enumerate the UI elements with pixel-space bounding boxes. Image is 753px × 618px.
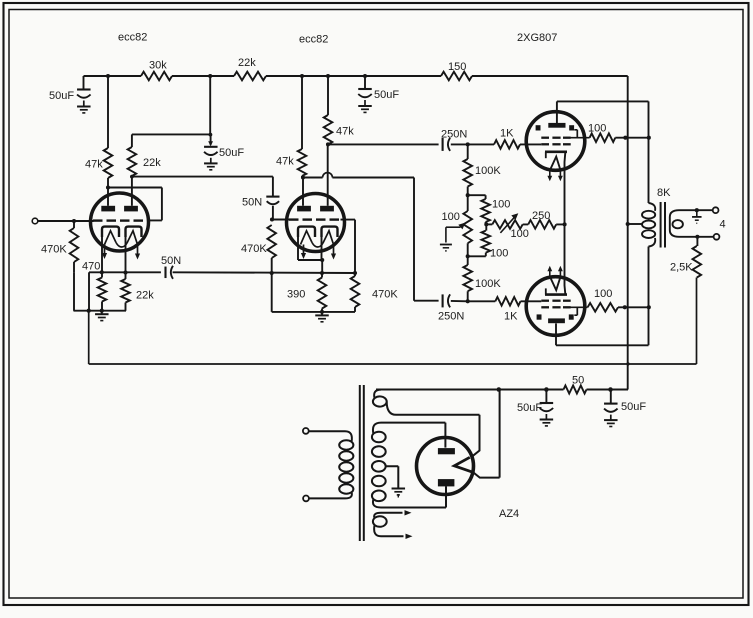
output terminal top	[713, 207, 719, 213]
wire grid V2 left	[272, 219, 291, 221]
label 4 ohm	[720, 219, 726, 231]
G807u plate	[548, 123, 565, 128]
node decoupler junction	[209, 133, 213, 137]
svg-text:100: 100	[490, 248, 508, 260]
resistor 50	[564, 386, 587, 394]
label 250N C7	[438, 311, 464, 323]
wire AZ4 plate bottom lead	[445, 486, 447, 507]
G807l control dashes	[541, 300, 570, 302]
wire B+ vertical	[627, 76, 629, 390]
label 2XG807	[517, 32, 557, 44]
node sec ground	[695, 208, 699, 212]
wire AZ4 plate top lead	[444, 423, 446, 448]
wire V2 bottom box	[272, 273, 355, 312]
ground V1 cathode	[95, 311, 109, 321]
tetrode G807 lower envelope	[526, 277, 585, 336]
svg-text:100: 100	[588, 123, 606, 135]
node rail-47k V2a	[300, 74, 304, 78]
node y273-470K2	[353, 271, 357, 275]
wire G807u plate line	[557, 101, 649, 203]
wire R47k to plate V1	[107, 178, 109, 206]
G807l beam plate right	[569, 314, 574, 319]
label AZ4	[499, 508, 519, 520]
wire AZ4 filament top lead	[471, 415, 479, 457]
label 470K V1	[41, 244, 67, 256]
ground secondary	[692, 210, 702, 223]
wire G807l plate line	[556, 247, 649, 346]
ground C2	[358, 106, 372, 112]
svg-text:150: 150	[448, 61, 466, 73]
node mid-lower	[466, 254, 470, 258]
capacitor 50uF C8	[540, 390, 554, 420]
label 8K	[657, 187, 671, 199]
ground C9	[604, 420, 618, 426]
capacitor 250N C7	[443, 294, 451, 307]
resistor 100 upper-cath	[481, 199, 490, 224]
label 2.5K	[670, 262, 693, 274]
label 50uF C1	[49, 90, 74, 102]
T2 secondary	[670, 210, 683, 237]
resistor 100K lower	[463, 256, 472, 301]
G807u screen tap	[566, 130, 590, 138]
wire HV center tap	[386, 466, 399, 488]
svg-text:ecc82: ecc82	[118, 32, 147, 44]
wire C4 to grid node	[272, 206, 274, 220]
V1 plate 1	[101, 206, 115, 212]
T1 primary	[309, 431, 354, 498]
label 470K V2-cath	[372, 289, 398, 301]
tetrode G807 upper envelope	[526, 112, 585, 171]
G807l cathode bar	[545, 288, 567, 294]
resistor 470K V1	[70, 228, 79, 262]
label 22k cathode	[136, 290, 154, 302]
G807l beam plate left	[537, 314, 542, 319]
label 100 balance	[511, 228, 529, 240]
wire grid V2 right	[341, 220, 356, 273]
label 50	[572, 375, 584, 387]
resistor 250	[523, 220, 565, 229]
svg-text:50uF: 50uF	[49, 90, 74, 102]
G807u screen dashes	[541, 137, 570, 139]
svg-text:470: 470	[82, 261, 100, 273]
wire 47kb to plate	[327, 144, 329, 205]
svg-text:50uF: 50uF	[517, 402, 542, 414]
T2 primary 8K	[642, 203, 655, 247]
svg-text:50N: 50N	[242, 197, 262, 209]
transformer T2 core	[661, 202, 665, 248]
node grid node lower	[466, 299, 470, 303]
wire rail to C2	[364, 76, 366, 89]
V2 grid dashes	[289, 218, 339, 220]
wire B+ raw line	[376, 389, 628, 391]
wire T2 center tap	[628, 223, 643, 225]
label 100K lower	[475, 278, 501, 290]
svg-text:4: 4	[720, 219, 726, 231]
capacitor 50uF C2	[358, 89, 372, 106]
arrow into C3	[208, 141, 213, 146]
wire decoupler arrow stem	[210, 134, 212, 144]
node rail-47k V1	[106, 74, 110, 78]
label 47k V2b	[336, 126, 354, 138]
node Braw-C8	[544, 387, 549, 392]
label 250N C6	[441, 129, 467, 141]
resistor 22k anode V1	[128, 147, 137, 176]
G807u beam plate left	[536, 125, 541, 130]
svg-text:50uF: 50uF	[219, 147, 244, 159]
resistor 47k V1	[104, 148, 113, 178]
G807u beam plate right	[569, 125, 574, 130]
label 30k	[149, 60, 167, 72]
resistor 470 V1	[98, 272, 107, 310]
G807l screen tap	[566, 307, 588, 315]
capacitor 250N C6	[443, 138, 451, 151]
V2 plate 1	[297, 206, 311, 212]
resistor 390	[318, 273, 327, 312]
output terminal bottom	[714, 234, 720, 240]
resistor 470K V2-grid	[267, 225, 276, 273]
svg-text:2XG807: 2XG807	[517, 32, 557, 44]
svg-text:100: 100	[492, 199, 510, 211]
svg-text:50uF: 50uF	[374, 89, 399, 101]
resistor 100K upper	[463, 144, 472, 195]
wire anode2 to C4	[132, 177, 273, 196]
label 50N C5	[161, 255, 181, 267]
G807l plate	[548, 318, 565, 323]
svg-text:50uF: 50uF	[621, 401, 646, 413]
label 50uF C8	[517, 402, 542, 414]
resistor 150	[441, 72, 472, 81]
svg-text:100K: 100K	[475, 278, 501, 290]
wire cathode line y272	[89, 272, 355, 310]
node cath-left	[100, 270, 104, 274]
label 50uF C2	[374, 89, 399, 101]
svg-text:2,5K: 2,5K	[670, 262, 693, 274]
svg-text:47k: 47k	[276, 156, 294, 168]
svg-text:50N: 50N	[161, 255, 181, 267]
node y273-390	[320, 271, 324, 275]
resistor 22k cathode V1	[121, 273, 130, 311]
input terminal	[32, 218, 38, 224]
ground C8	[540, 420, 554, 426]
triode V1 envelope	[91, 193, 149, 251]
node grid node upper	[466, 142, 470, 146]
V1 cathode structures	[102, 227, 142, 247]
potentiometer 100 hum	[463, 195, 472, 256]
node screen-B+ lower	[623, 305, 627, 309]
node cath-right	[123, 270, 127, 274]
label ecc82 (V2)	[299, 34, 328, 46]
resistor 470K V2-cath	[351, 273, 360, 307]
G807u control dashes	[541, 143, 570, 145]
AZ4 plate bottom	[438, 479, 455, 486]
node 22k-anode junction	[130, 175, 134, 179]
G807l plate lead	[555, 323, 557, 345]
node ground-rail fb	[87, 309, 91, 313]
svg-text:470K: 470K	[372, 289, 398, 301]
label 100 upper-cath	[492, 199, 510, 211]
wire AZ4 filament bottom lead	[473, 390, 500, 478]
node col2 mid	[484, 222, 488, 226]
ground C3	[204, 163, 218, 169]
capacitor 50uF C1	[77, 90, 91, 107]
capacitor 50N C4	[266, 197, 279, 205]
ground HV CT	[392, 489, 406, 498]
svg-text:8K: 8K	[657, 187, 671, 199]
node rail-47k V2b	[326, 74, 330, 78]
label 1K upper	[500, 128, 514, 140]
label 100 hum	[442, 211, 460, 223]
svg-text:AZ4: AZ4	[499, 508, 519, 520]
wire rail to 47k V2a	[301, 76, 303, 149]
resistor 100 lower-cath	[468, 224, 490, 256]
wire rail to R47k V1	[107, 76, 109, 148]
G807l screen dashes	[541, 306, 570, 308]
transformer T1 core	[360, 385, 364, 541]
wire chain lead	[486, 223, 492, 225]
node V2 cathode	[320, 258, 324, 262]
node cathode-chain	[563, 222, 567, 226]
label ecc82 (V1)	[118, 32, 147, 44]
label 100 lower-cath	[490, 248, 508, 260]
node B+ feedback crossing	[626, 362, 629, 365]
wire anode1 to grid2 V1	[108, 188, 162, 221]
svg-text:250N: 250N	[441, 129, 467, 141]
AZ4 plate top	[438, 448, 455, 454]
node screen-plate upper	[647, 136, 651, 140]
AZ4 filament	[454, 457, 473, 472]
triode V2 envelope	[287, 194, 345, 252]
capacitor 50uF C9	[604, 390, 618, 420]
V2 cathode lead right	[321, 237, 323, 260]
svg-text:100: 100	[511, 228, 529, 240]
heater arrow top	[405, 510, 412, 515]
svg-text:22k: 22k	[136, 290, 154, 302]
resistor 30k	[141, 72, 172, 81]
ground V2	[315, 312, 329, 322]
wire anode V2b to C6	[328, 143, 439, 145]
node anode1 junction	[106, 185, 110, 189]
ground C1	[77, 107, 91, 113]
wiper 100 balance	[500, 213, 518, 233]
node B+ CT	[626, 222, 630, 226]
G807u cathode bar	[545, 152, 567, 158]
node ground-rail gnd	[100, 309, 104, 313]
wire col2 top	[468, 195, 486, 199]
mains terminal bottom	[303, 496, 309, 502]
G807l heater	[550, 276, 561, 290]
label 50uF C9	[621, 401, 646, 413]
label 47k V1	[85, 159, 103, 171]
label 470K V2-grid	[241, 243, 267, 255]
label 22k anode V1	[143, 157, 161, 169]
svg-text:ecc82: ecc82	[299, 34, 328, 46]
node input-470K junction	[72, 219, 76, 223]
svg-text:100K: 100K	[475, 165, 501, 177]
node screen-plate lower	[647, 305, 651, 309]
V2 cathode lead left	[297, 237, 299, 260]
V1 heater arrow right	[135, 245, 140, 260]
resistor 1K upper	[468, 140, 542, 149]
label 390	[287, 289, 305, 301]
wire secondary bottom	[679, 236, 714, 238]
resistor 22k (rail)	[234, 72, 266, 81]
node anode V2a	[301, 175, 305, 179]
T1 rectifier filament winding	[373, 390, 480, 415]
rectifier AZ4 envelope	[417, 438, 474, 495]
svg-text:22k: 22k	[238, 57, 256, 69]
heater arrow bottom	[406, 534, 413, 539]
V1 grid dashes	[93, 219, 143, 221]
wire cathode ground rail	[74, 272, 127, 310]
wire 22k top to decoupler	[132, 133, 211, 135]
wire anode2a to lower coupling	[303, 173, 439, 301]
V2 plate 2	[320, 206, 334, 212]
wire 470K V1 top	[73, 221, 75, 228]
resistor 47k V2b	[324, 115, 333, 144]
V1 cathode lead right	[125, 237, 127, 273]
capacitor 50N C5	[166, 266, 174, 279]
label 470	[82, 261, 100, 273]
node grid V2 node	[270, 217, 274, 221]
wire secondary top	[679, 209, 713, 211]
wire 47ka to plate	[302, 176, 303, 206]
resistor 47k V2a	[298, 149, 307, 176]
wire rail to C1	[83, 76, 85, 90]
label 100 screen lower	[594, 288, 612, 300]
label 100K upper	[475, 165, 501, 177]
wire cathode link	[564, 153, 567, 295]
node sec 2K5	[695, 235, 699, 239]
G807u plate lead	[556, 101, 558, 123]
svg-text:250N: 250N	[438, 311, 464, 323]
T1 HV secondary	[372, 423, 446, 508]
wire rail drop to decoupler	[209, 76, 211, 134]
V1 cathode lead left	[101, 237, 103, 272]
resistor 2.5K	[693, 237, 702, 278]
svg-text:30k: 30k	[149, 60, 167, 72]
svg-text:47k: 47k	[85, 159, 103, 171]
G807l heater arrows	[547, 266, 562, 276]
node rail-decoupler	[208, 74, 212, 78]
V1 heater arrow left	[102, 245, 107, 260]
node Braw-C9	[608, 387, 613, 392]
V2 cathode box	[298, 260, 322, 273]
label 22k (rail)	[238, 57, 256, 69]
svg-text:1K: 1K	[504, 311, 518, 323]
label 50N C4	[242, 197, 262, 209]
wire feedback long	[89, 278, 697, 365]
svg-text:390: 390	[287, 289, 305, 301]
wire 22k-anode top	[131, 134, 133, 147]
V1 plate 2	[124, 206, 138, 212]
svg-text:470K: 470K	[241, 243, 267, 255]
label 1K lower	[504, 311, 518, 323]
node rail-cap2	[363, 74, 367, 78]
wire anode2 lead V1	[131, 176, 133, 206]
svg-text:470K: 470K	[41, 244, 67, 256]
ground hum pot	[440, 245, 452, 251]
svg-text:1K: 1K	[500, 128, 514, 140]
resistor 100 screen lower	[588, 303, 650, 312]
wire C6 to grid node	[451, 143, 468, 145]
resistor 1K lower	[468, 297, 542, 306]
rheostat 100 balance	[492, 220, 522, 229]
label 50uF C3	[219, 147, 244, 159]
svg-text:100: 100	[594, 288, 612, 300]
label 47k V2a	[276, 156, 294, 168]
node anode V2b	[326, 142, 330, 146]
label 250	[532, 210, 550, 222]
label 100 screen upper	[588, 123, 606, 135]
wire B+ rail	[84, 75, 628, 77]
svg-text:22k: 22k	[143, 157, 161, 169]
wire C7 to grid node	[451, 300, 468, 302]
node 390 bottom	[320, 310, 324, 314]
V2 cathode structures	[298, 227, 338, 247]
wire 470K V1 bottom	[73, 262, 75, 272]
node y273-470K	[270, 271, 274, 275]
capacitor 50uF C3	[204, 147, 218, 163]
node mid-upper	[466, 193, 470, 197]
svg-text:250: 250	[532, 210, 550, 222]
T1 heater winding	[373, 513, 404, 537]
G807u heater	[550, 157, 561, 171]
svg-text:47k: 47k	[336, 126, 354, 138]
wire input to grid V1	[38, 220, 94, 222]
V2 heater arrow right	[331, 245, 336, 260]
G807u heater arrows	[547, 171, 562, 181]
svg-text:50: 50	[572, 375, 584, 387]
wire rail to 47k V2b	[327, 76, 329, 115]
mains terminal top	[303, 428, 309, 434]
svg-text:100: 100	[442, 211, 460, 223]
wiper 100 hum	[446, 223, 465, 243]
resistor 100 screen upper	[590, 133, 650, 142]
node Braw-rect	[497, 387, 502, 392]
V2 heater arrow left	[301, 245, 306, 260]
node screen-B+ upper	[623, 136, 627, 140]
label 150	[448, 61, 466, 73]
